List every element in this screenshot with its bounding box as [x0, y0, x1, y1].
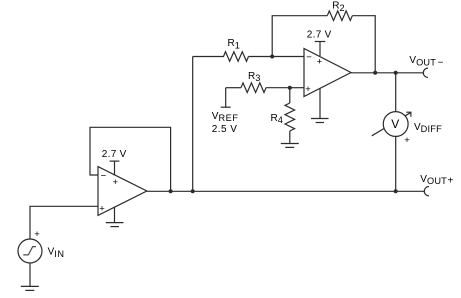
wire: R2 right down to node D: [352, 16, 375, 73]
voltmeter VDIFF arrowhead: [406, 112, 411, 117]
wire: bottom rail from U1 output to VOUT+ terminal: [147, 190, 425, 192]
svg-text:VDIFF: VDIFF: [414, 122, 442, 134]
wire: node C up to R2 left: [272, 16, 327, 57]
svg-text:R3: R3: [248, 71, 261, 83]
wire: voltmeter bottom down to node H: [395, 136, 397, 191]
wire: U1 feedback loop: [90, 127, 171, 191]
wire: U2 inverting rail from node E branch to R1 left: [193, 56, 224, 58]
svg-text:R1: R1: [228, 38, 241, 50]
svg-text:VREF: VREF: [212, 111, 239, 123]
wire: node F to U2 non-inverting input: [290, 87, 304, 89]
wire: node F down to R4 top: [289, 88, 291, 103]
wire: R1 right to node C: [249, 56, 273, 58]
svg-text:+: +: [99, 204, 105, 215]
node G junction dot (VDIFF top tap): [394, 71, 398, 75]
ground under R4: [281, 143, 299, 145]
wire: VIN bottom to ground: [29, 263, 31, 286]
node H junction dot (VDIFF bottom tap): [394, 189, 398, 193]
resistor R3: [241, 83, 266, 93]
svg-text:V: V: [391, 117, 399, 131]
svg-text:+: +: [34, 229, 40, 240]
wire: VREF terminal drop: [225, 88, 227, 108]
node D junction dot: [373, 71, 377, 75]
voltmeter VDIFF circle: [383, 112, 408, 137]
node I junction dot (feedback tap): [169, 189, 173, 193]
svg-text:R4: R4: [271, 113, 284, 125]
voltmeter VDIFF arrow shaft: [372, 113, 411, 136]
VIN step waveform symbol: [23, 247, 36, 255]
wire: VREF stub to R3 left: [226, 87, 241, 89]
svg-text:+: +: [404, 135, 410, 146]
source VIN circle: [18, 239, 42, 263]
svg-text:2.7 V: 2.7 V: [307, 30, 332, 41]
wire: node G down to voltmeter: [395, 73, 397, 112]
node C junction dot: [270, 55, 274, 59]
svg-text:+: +: [317, 57, 323, 68]
svg-text:VOUT−: VOUT−: [409, 55, 443, 68]
U2 ground stub: [319, 89, 321, 119]
svg-text:−: −: [101, 171, 107, 182]
ground under U1: [106, 222, 124, 224]
op-amp U1 triangle: [98, 167, 147, 216]
VOUT+ terminal curl: [424, 187, 429, 196]
U1 ground stub: [114, 207, 116, 223]
resistor R4 (vertical): [285, 103, 295, 131]
VREF terminal bar: [221, 106, 231, 108]
VOUT- terminal curl: [423, 68, 428, 77]
wire: node C to U2 inverting input: [272, 56, 304, 58]
svg-text:R2: R2: [332, 1, 345, 13]
svg-text:VOUT+: VOUT+: [420, 174, 453, 186]
svg-text:VIN: VIN: [48, 247, 65, 259]
U2 supply wire: [319, 42, 321, 57]
wire: vertical from R1 rail down to node E on bottom rail: [192, 57, 194, 192]
wire: R3 right to node F: [266, 87, 290, 89]
ground under U2: [311, 118, 329, 120]
U1 supply wire: [114, 161, 116, 175]
U1 supply bar: [110, 160, 120, 162]
svg-text:+: +: [305, 84, 311, 95]
wire: U1 non-inverting input from VIN: [30, 206, 98, 239]
wire: U2 output to VOUT- terminal: [351, 72, 423, 74]
resistor R1: [224, 52, 249, 62]
node E junction dot (R1 branch): [191, 189, 195, 193]
resistor R2: [327, 11, 352, 21]
U2 supply bar: [315, 41, 326, 43]
wire: R4 bottom to ground: [289, 131, 291, 143]
svg-text:2.7 V: 2.7 V: [102, 149, 127, 160]
svg-text:+: +: [113, 177, 119, 188]
op-amp U2 triangle: [304, 49, 351, 97]
node F junction dot: [288, 86, 292, 90]
svg-text:2.5 V: 2.5 V: [212, 124, 238, 135]
ground under VIN: [21, 285, 39, 287]
svg-text:−: −: [306, 52, 312, 63]
